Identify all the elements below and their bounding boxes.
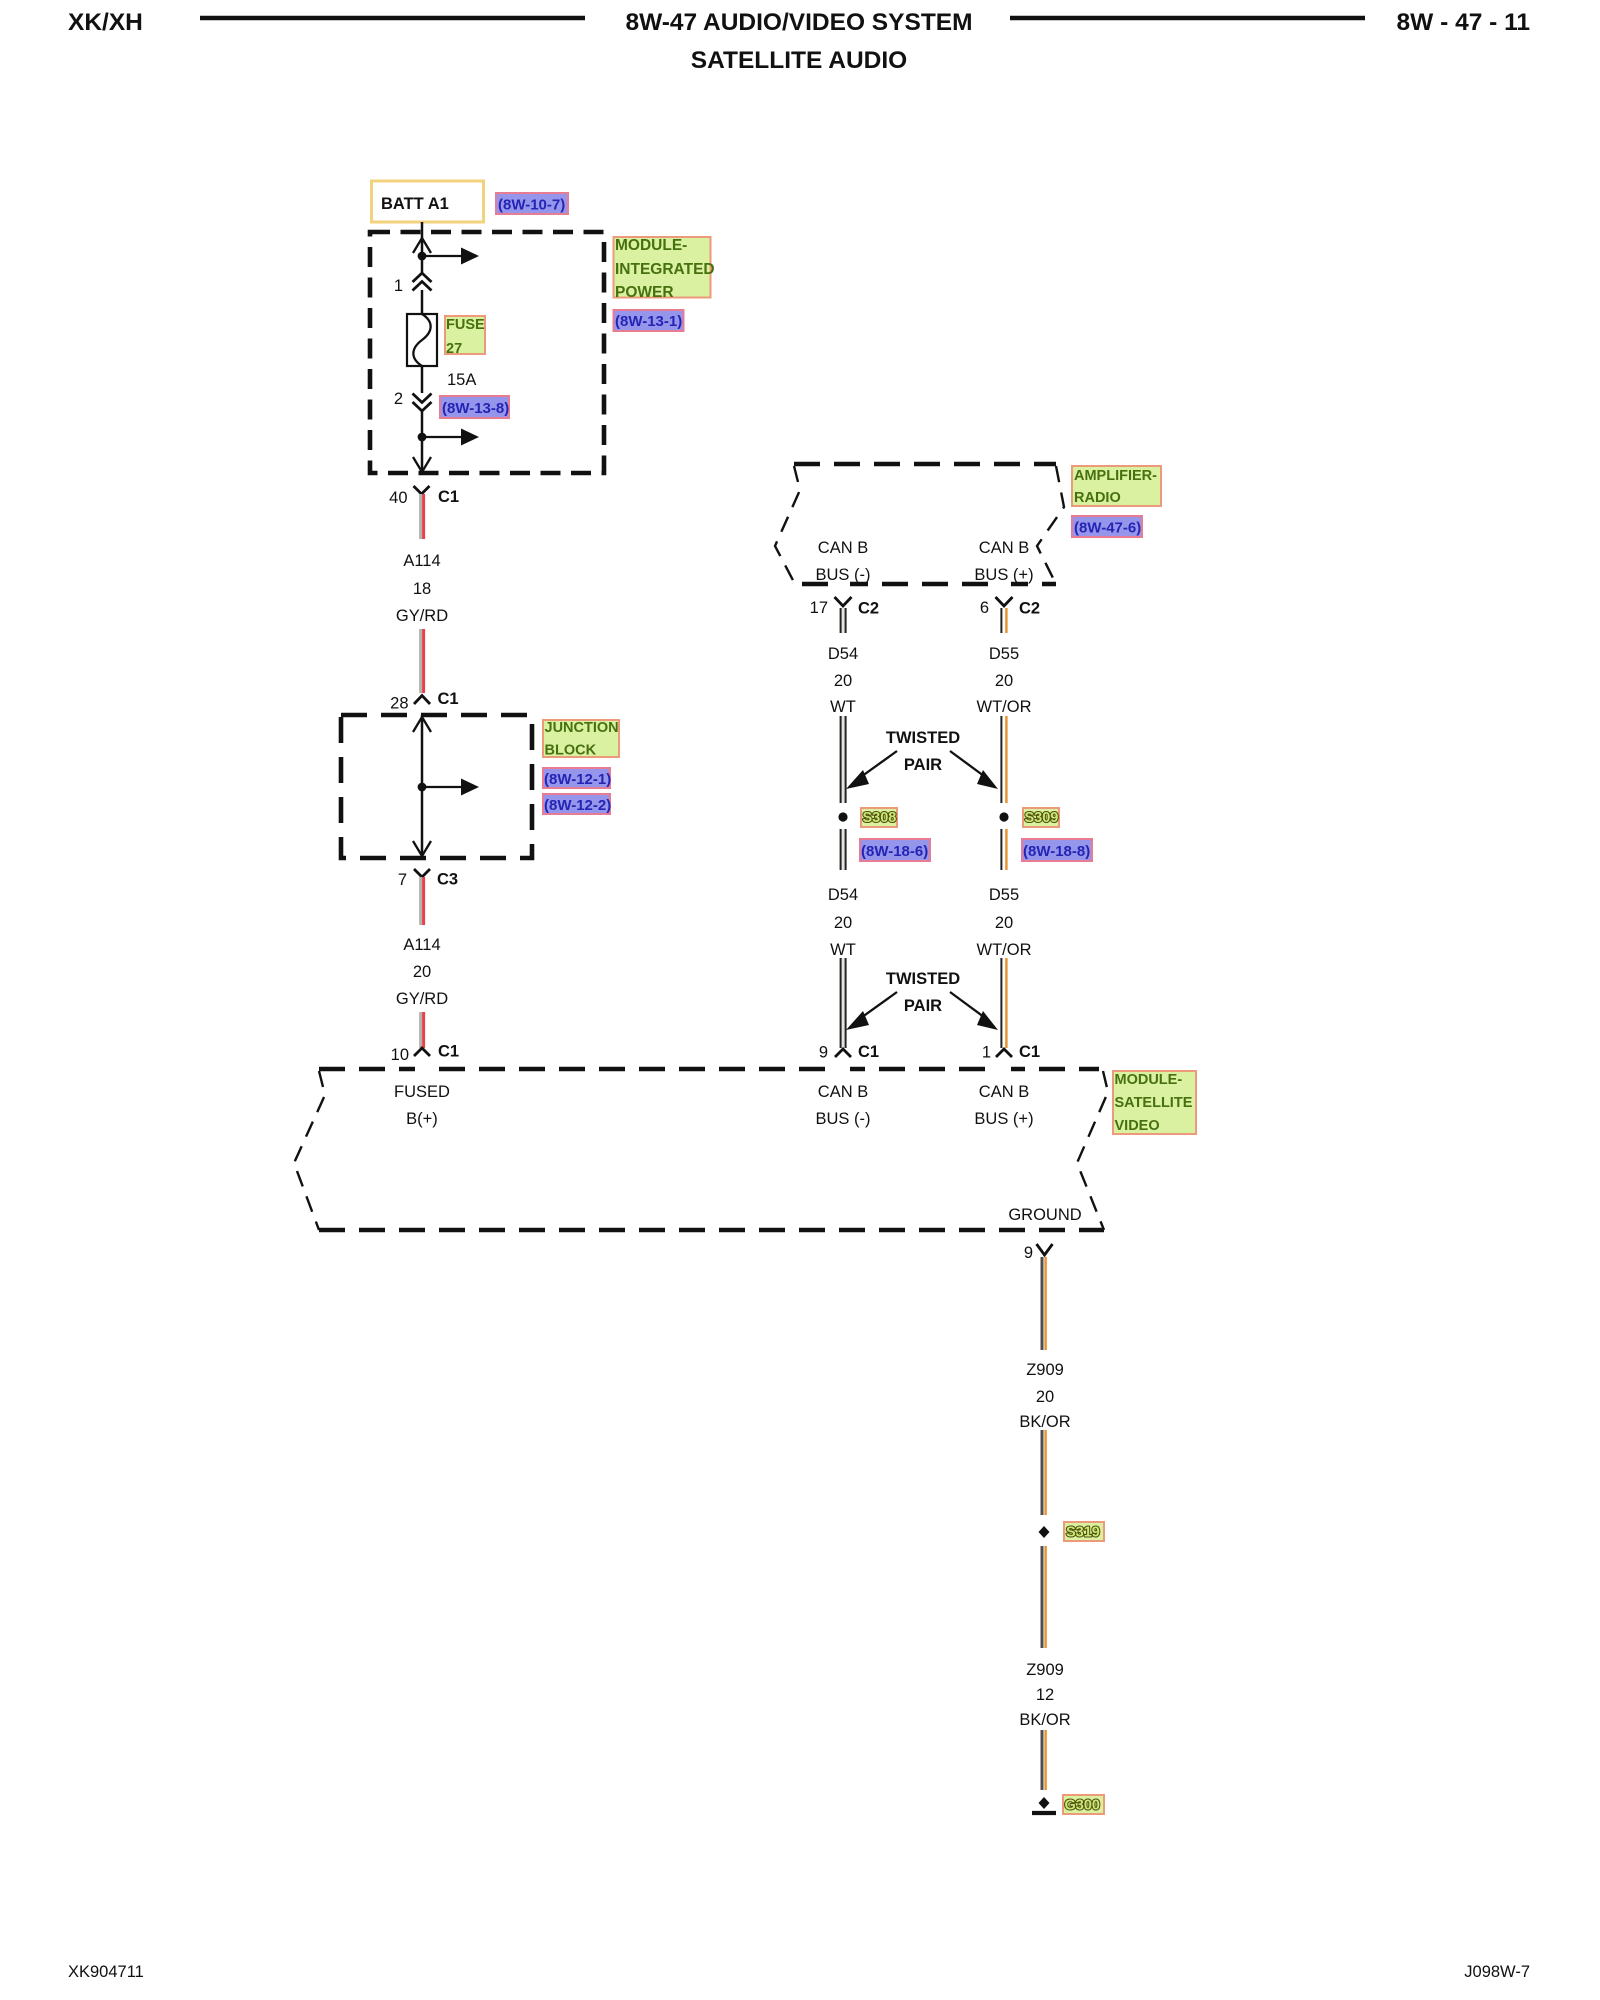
svg-text:SATELLITE AUDIO: SATELLITE AUDIO: [691, 47, 907, 74]
svg-text:RADIO: RADIO: [1074, 490, 1121, 506]
svg-text:Z909: Z909: [1026, 1361, 1064, 1379]
fuse F27 15A: [407, 314, 437, 366]
wire fuse to exit: [421, 366, 424, 393]
branch wire with arrow: [422, 255, 462, 257]
wire A114 18 GY/RD segment 2: [419, 629, 422, 693]
connector 1 (in-line chevrons): [413, 273, 432, 282]
svg-text:WT/OR: WT/OR: [977, 698, 1032, 716]
svg-text:GY/RD: GY/RD: [396, 990, 448, 1008]
svg-text:S308: S308: [863, 810, 897, 826]
branch wire with arrow in block: [422, 786, 462, 788]
svg-text:XK/XH: XK/XH: [68, 9, 143, 36]
svg-text:FUSE: FUSE: [446, 317, 485, 333]
ground G300 symbol: [1039, 1797, 1050, 1809]
twisted pair arrow right 2: [950, 992, 988, 1020]
svg-text:PAIR: PAIR: [904, 756, 942, 774]
twisted pair arrow left 2: [858, 992, 897, 1020]
splice S309: [999, 812, 1008, 821]
wire D54 20 WT segment 1: [841, 608, 844, 633]
svg-text:1: 1: [394, 277, 403, 295]
svg-text:PAIR: PAIR: [904, 997, 942, 1015]
branch wire with arrow 2: [422, 436, 462, 438]
svg-text:G300: G300: [1065, 1798, 1100, 1814]
label (8W-12-1): [543, 768, 610, 788]
label S308: [861, 808, 897, 827]
junction block box: [341, 715, 532, 858]
svg-text:C1: C1: [438, 488, 459, 506]
svg-text:(8W-47-6): (8W-47-6): [1074, 520, 1141, 537]
amplifier-radio box bottom edge: [802, 582, 1056, 587]
svg-text:WT: WT: [830, 941, 856, 959]
wire Z909 20 BK/OR segment 1: [1041, 1257, 1044, 1350]
label (8W-13-8): [440, 396, 509, 418]
header rule left: [200, 16, 585, 21]
svg-text:A114: A114: [403, 936, 440, 954]
module label MODULE-INTEGRATED POWER: [614, 237, 711, 298]
svg-text:20: 20: [413, 963, 431, 981]
svg-text:CAN B: CAN B: [818, 1083, 868, 1101]
wire Z909 12 BK/OR segment 2: [1041, 1730, 1044, 1790]
svg-text:C2: C2: [1019, 600, 1040, 618]
svg-text:S309: S309: [1025, 810, 1059, 826]
svg-text:INTEGRATED: INTEGRATED: [615, 261, 715, 278]
svg-text:C1: C1: [438, 1043, 459, 1061]
wire A114 18 GY/RD segment 1: [419, 494, 422, 539]
wire D55 20 WT/OR segment 4: [1002, 958, 1005, 1048]
wire BATT A1 to fuse: [421, 222, 424, 274]
entry arrowhead at module border: [413, 238, 431, 253]
amplifier-radio box right broken edge: [1037, 466, 1064, 584]
label (8W-47-6): [1072, 516, 1142, 537]
svg-text:18: 18: [413, 580, 431, 598]
label (8W-18-6): [860, 839, 930, 861]
svg-text:15A: 15A: [447, 371, 476, 389]
header rule right: [1010, 16, 1365, 21]
svg-text:VIDEO: VIDEO: [1115, 1118, 1160, 1134]
svg-text:BUS (-): BUS (-): [816, 566, 871, 584]
svg-text:CAN B: CAN B: [979, 539, 1029, 557]
svg-text:27: 27: [446, 341, 462, 357]
amplifier-radio box left broken edge: [775, 466, 800, 584]
svg-text:(8W-18-8): (8W-18-8): [1023, 843, 1090, 860]
svg-text:WT: WT: [830, 698, 856, 716]
svg-text:GY/RD: GY/RD: [396, 607, 448, 625]
svg-text:20: 20: [995, 672, 1013, 690]
splice S308: [838, 812, 847, 821]
svg-text:WT/OR: WT/OR: [977, 941, 1032, 959]
connector 2 (in-line chevrons): [413, 394, 432, 403]
label (8W-10-7): [496, 193, 568, 214]
module label MODULE-SATELLITE VIDEO: [1113, 1071, 1196, 1134]
svg-text:JUNCTION: JUNCTION: [545, 720, 619, 736]
label S319: [1064, 1522, 1104, 1541]
svg-text:POWER: POWER: [615, 284, 674, 301]
svg-text:20: 20: [834, 914, 852, 932]
fuse label FUSE 27: [445, 316, 485, 354]
svg-text:(8W-10-7): (8W-10-7): [498, 197, 565, 214]
module-satellite video box right broken edge: [1077, 1071, 1108, 1230]
wire D54 20 WT segment 2: [841, 716, 844, 803]
node junction with dot: [418, 252, 427, 261]
svg-text:C1: C1: [858, 1043, 879, 1061]
wire A114 20 GY/RD segment 1: [419, 877, 422, 925]
svg-text:J098W-7: J098W-7: [1464, 1963, 1530, 1981]
svg-text:BUS (-): BUS (-): [816, 1110, 871, 1128]
svg-text:(8W-12-2): (8W-12-2): [544, 797, 611, 814]
svg-text:D54: D54: [828, 645, 858, 663]
svg-text:(8W-13-1): (8W-13-1): [615, 313, 682, 330]
svg-text:12: 12: [1036, 1686, 1054, 1704]
svg-text:BK/OR: BK/OR: [1019, 1711, 1070, 1729]
svg-text:CAN B: CAN B: [818, 539, 868, 557]
splice S319: [1039, 1526, 1050, 1538]
svg-text:GROUND: GROUND: [1008, 1206, 1081, 1224]
svg-text:C3: C3: [437, 871, 458, 889]
node junction 2 with dot: [418, 433, 427, 442]
wire D54 20 WT segment 3: [841, 829, 844, 870]
dash gaps at pin crossings amp: [836, 581, 850, 588]
exit arrowhead junction block: [413, 841, 431, 856]
wire Z909 12 BK/OR segment 1: [1041, 1546, 1044, 1648]
amplifier-radio box top edge: [794, 462, 1056, 467]
svg-text:9: 9: [819, 1044, 828, 1062]
svg-text:AMPLIFIER-: AMPLIFIER-: [1074, 468, 1157, 484]
svg-text:B(+): B(+): [406, 1110, 438, 1128]
node junction dot in block: [418, 783, 427, 792]
module-satellite video box bottom edge: [319, 1228, 1104, 1233]
wire D55 20 WT/OR segment 2: [1002, 716, 1005, 803]
svg-text:MODULE-: MODULE-: [1115, 1072, 1183, 1088]
svg-text:28: 28: [390, 695, 408, 713]
wire D55 20 WT/OR segment 1: [1002, 608, 1005, 633]
svg-text:20: 20: [995, 914, 1013, 932]
twisted pair arrow left 1: [858, 751, 897, 779]
svg-text:(8W-18-6): (8W-18-6): [861, 843, 928, 860]
svg-text:FUSED: FUSED: [394, 1083, 450, 1101]
wire D55 20 WT/OR segment 3: [1002, 829, 1005, 870]
svg-text:D54: D54: [828, 886, 858, 904]
svg-text:BUS (+): BUS (+): [974, 566, 1033, 584]
svg-text:7: 7: [398, 871, 407, 889]
module-satellite video box top edge: [319, 1067, 1099, 1072]
svg-text:8W - 47 - 11: 8W - 47 - 11: [1397, 9, 1530, 36]
svg-text:XK904711: XK904711: [68, 1963, 144, 1981]
svg-text:20: 20: [834, 672, 852, 690]
svg-text:17: 17: [810, 599, 828, 617]
svg-text:BATT A1: BATT A1: [381, 195, 449, 213]
svg-text:D55: D55: [989, 645, 1019, 663]
exit arrowhead at bottom border: [413, 457, 431, 472]
svg-text:MODULE-: MODULE-: [615, 237, 687, 254]
ground label G300: [1063, 1795, 1104, 1814]
wire Z909 20 BK/OR segment 2: [1041, 1430, 1044, 1515]
svg-text:(8W-13-8): (8W-13-8): [442, 400, 509, 417]
battery feed box BATT A1: [372, 181, 484, 222]
label (8W-12-2): [543, 794, 610, 814]
label S309: [1023, 808, 1059, 827]
twisted pair arrow right 1: [950, 751, 988, 779]
module-integrated power box: [370, 232, 604, 473]
svg-text:C1: C1: [438, 690, 459, 708]
svg-text:6: 6: [980, 599, 989, 617]
label (8W-18-8): [1022, 839, 1092, 861]
entry arrowhead junction block: [413, 717, 431, 732]
svg-text:BUS (+): BUS (+): [974, 1110, 1033, 1128]
svg-text:10: 10: [391, 1046, 409, 1064]
svg-text:9: 9: [1024, 1244, 1033, 1262]
svg-text:40: 40: [389, 489, 407, 507]
dash gaps at pin crossings: [415, 1066, 429, 1073]
svg-text:C2: C2: [858, 600, 879, 618]
module-satellite video box left broken edge: [294, 1071, 325, 1230]
svg-text:(8W-12-1): (8W-12-1): [544, 771, 611, 788]
wire A114 20 GY/RD segment 2: [419, 1012, 422, 1048]
svg-text:20: 20: [1036, 1388, 1054, 1406]
svg-text:D55: D55: [989, 886, 1019, 904]
svg-text:SATELLITE: SATELLITE: [1115, 1095, 1193, 1111]
label (8W-13-1): [614, 310, 684, 331]
svg-text:CAN B: CAN B: [979, 1083, 1029, 1101]
wire through junction block: [421, 715, 424, 857]
svg-text:C1: C1: [1019, 1043, 1040, 1061]
svg-text:S319: S319: [1066, 1525, 1100, 1541]
svg-text:TWISTED: TWISTED: [886, 729, 960, 747]
svg-text:A114: A114: [403, 552, 440, 570]
wire D54 20 WT segment 4: [841, 958, 844, 1048]
svg-text:1: 1: [982, 1044, 991, 1062]
svg-text:8W-47 AUDIO/VIDEO SYSTEM: 8W-47 AUDIO/VIDEO SYSTEM: [625, 9, 972, 36]
svg-text:TWISTED: TWISTED: [886, 970, 960, 988]
module label AMPLIFIER-RADIO: [1072, 466, 1161, 506]
junction block label JUNCTION BLOCK: [543, 720, 619, 757]
svg-text:Z909: Z909: [1026, 1661, 1064, 1679]
svg-text:2: 2: [394, 390, 403, 408]
svg-text:BLOCK: BLOCK: [545, 743, 597, 759]
svg-text:BK/OR: BK/OR: [1019, 1413, 1070, 1431]
